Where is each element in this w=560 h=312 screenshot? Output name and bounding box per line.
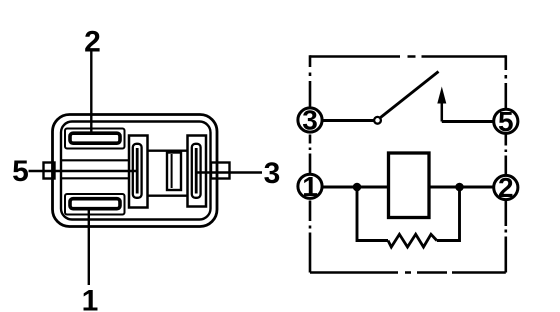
resistor: [388, 234, 437, 247]
wire circle1 to coil: [322, 186, 389, 189]
svg-text:2: 2: [498, 172, 514, 203]
junction node left: [353, 183, 362, 192]
svg-text:3: 3: [264, 157, 281, 190]
terminal 3 tab: [211, 163, 230, 179]
terminal 5 channel top edge: [62, 159, 130, 161]
terminal 2 slot blade: [70, 133, 120, 143]
relay coil: [389, 153, 430, 218]
center key rect: [167, 153, 181, 191]
center right slot: [192, 144, 201, 198]
terminal 2 slot outer: [65, 129, 125, 149]
center band top edge: [148, 149, 188, 151]
relay case boundary left (dash-dot): [309, 55, 312, 272]
switch actuation arrow shaft: [441, 101, 444, 122]
terminal circle 3: [298, 108, 322, 132]
svg-text:5: 5: [498, 106, 514, 137]
terminal circle 5: [494, 109, 518, 133]
terminal 5 channel bottom edge: [62, 177, 130, 179]
junction node right: [455, 183, 464, 192]
relay case boundary bottom (dash-dot): [310, 271, 506, 274]
wire circle3 to switch pivot: [322, 119, 374, 122]
switch actuation arrow head: [437, 87, 446, 104]
svg-text:3: 3: [302, 105, 318, 136]
center right slot blade: [195, 148, 198, 194]
relay case boundary top (dash-dot): [310, 55, 506, 58]
switch pivot contact: [374, 117, 381, 124]
center left slot blade: [136, 148, 139, 194]
svg-text:1: 1: [302, 171, 318, 202]
svg-text:2: 2: [84, 26, 101, 59]
leader line to pin 1: [88, 208, 90, 286]
center key rect inner wall: [171, 154, 173, 188]
center left slot: [133, 144, 142, 198]
center band bottom edge: [148, 194, 188, 196]
wire resistor to right riser: [437, 187, 460, 241]
wire arrow to circle5: [442, 120, 494, 123]
relay housing inner outline: [61, 122, 211, 220]
relay case boundary right (dash-dot): [504, 55, 507, 272]
relay housing outer outline: [53, 115, 218, 227]
terminal 1 slot blade: [70, 199, 120, 209]
terminal 5 tab: [44, 163, 55, 179]
leader line to pin 2: [90, 49, 92, 132]
leader line to pin 3: [197, 171, 262, 173]
leader line to pin 5: [29, 170, 137, 172]
terminal circle 2: [494, 175, 518, 199]
center right block: [188, 136, 207, 207]
svg-text:1: 1: [82, 285, 99, 312]
terminal 1 slot outer: [65, 194, 125, 215]
switch blade: [381, 72, 439, 118]
svg-text:5: 5: [12, 155, 29, 188]
wire left drop to resistor branch: [357, 187, 388, 241]
terminal circle 1: [298, 174, 322, 198]
center left block: [129, 136, 148, 208]
wire coil to circle2: [429, 186, 494, 189]
